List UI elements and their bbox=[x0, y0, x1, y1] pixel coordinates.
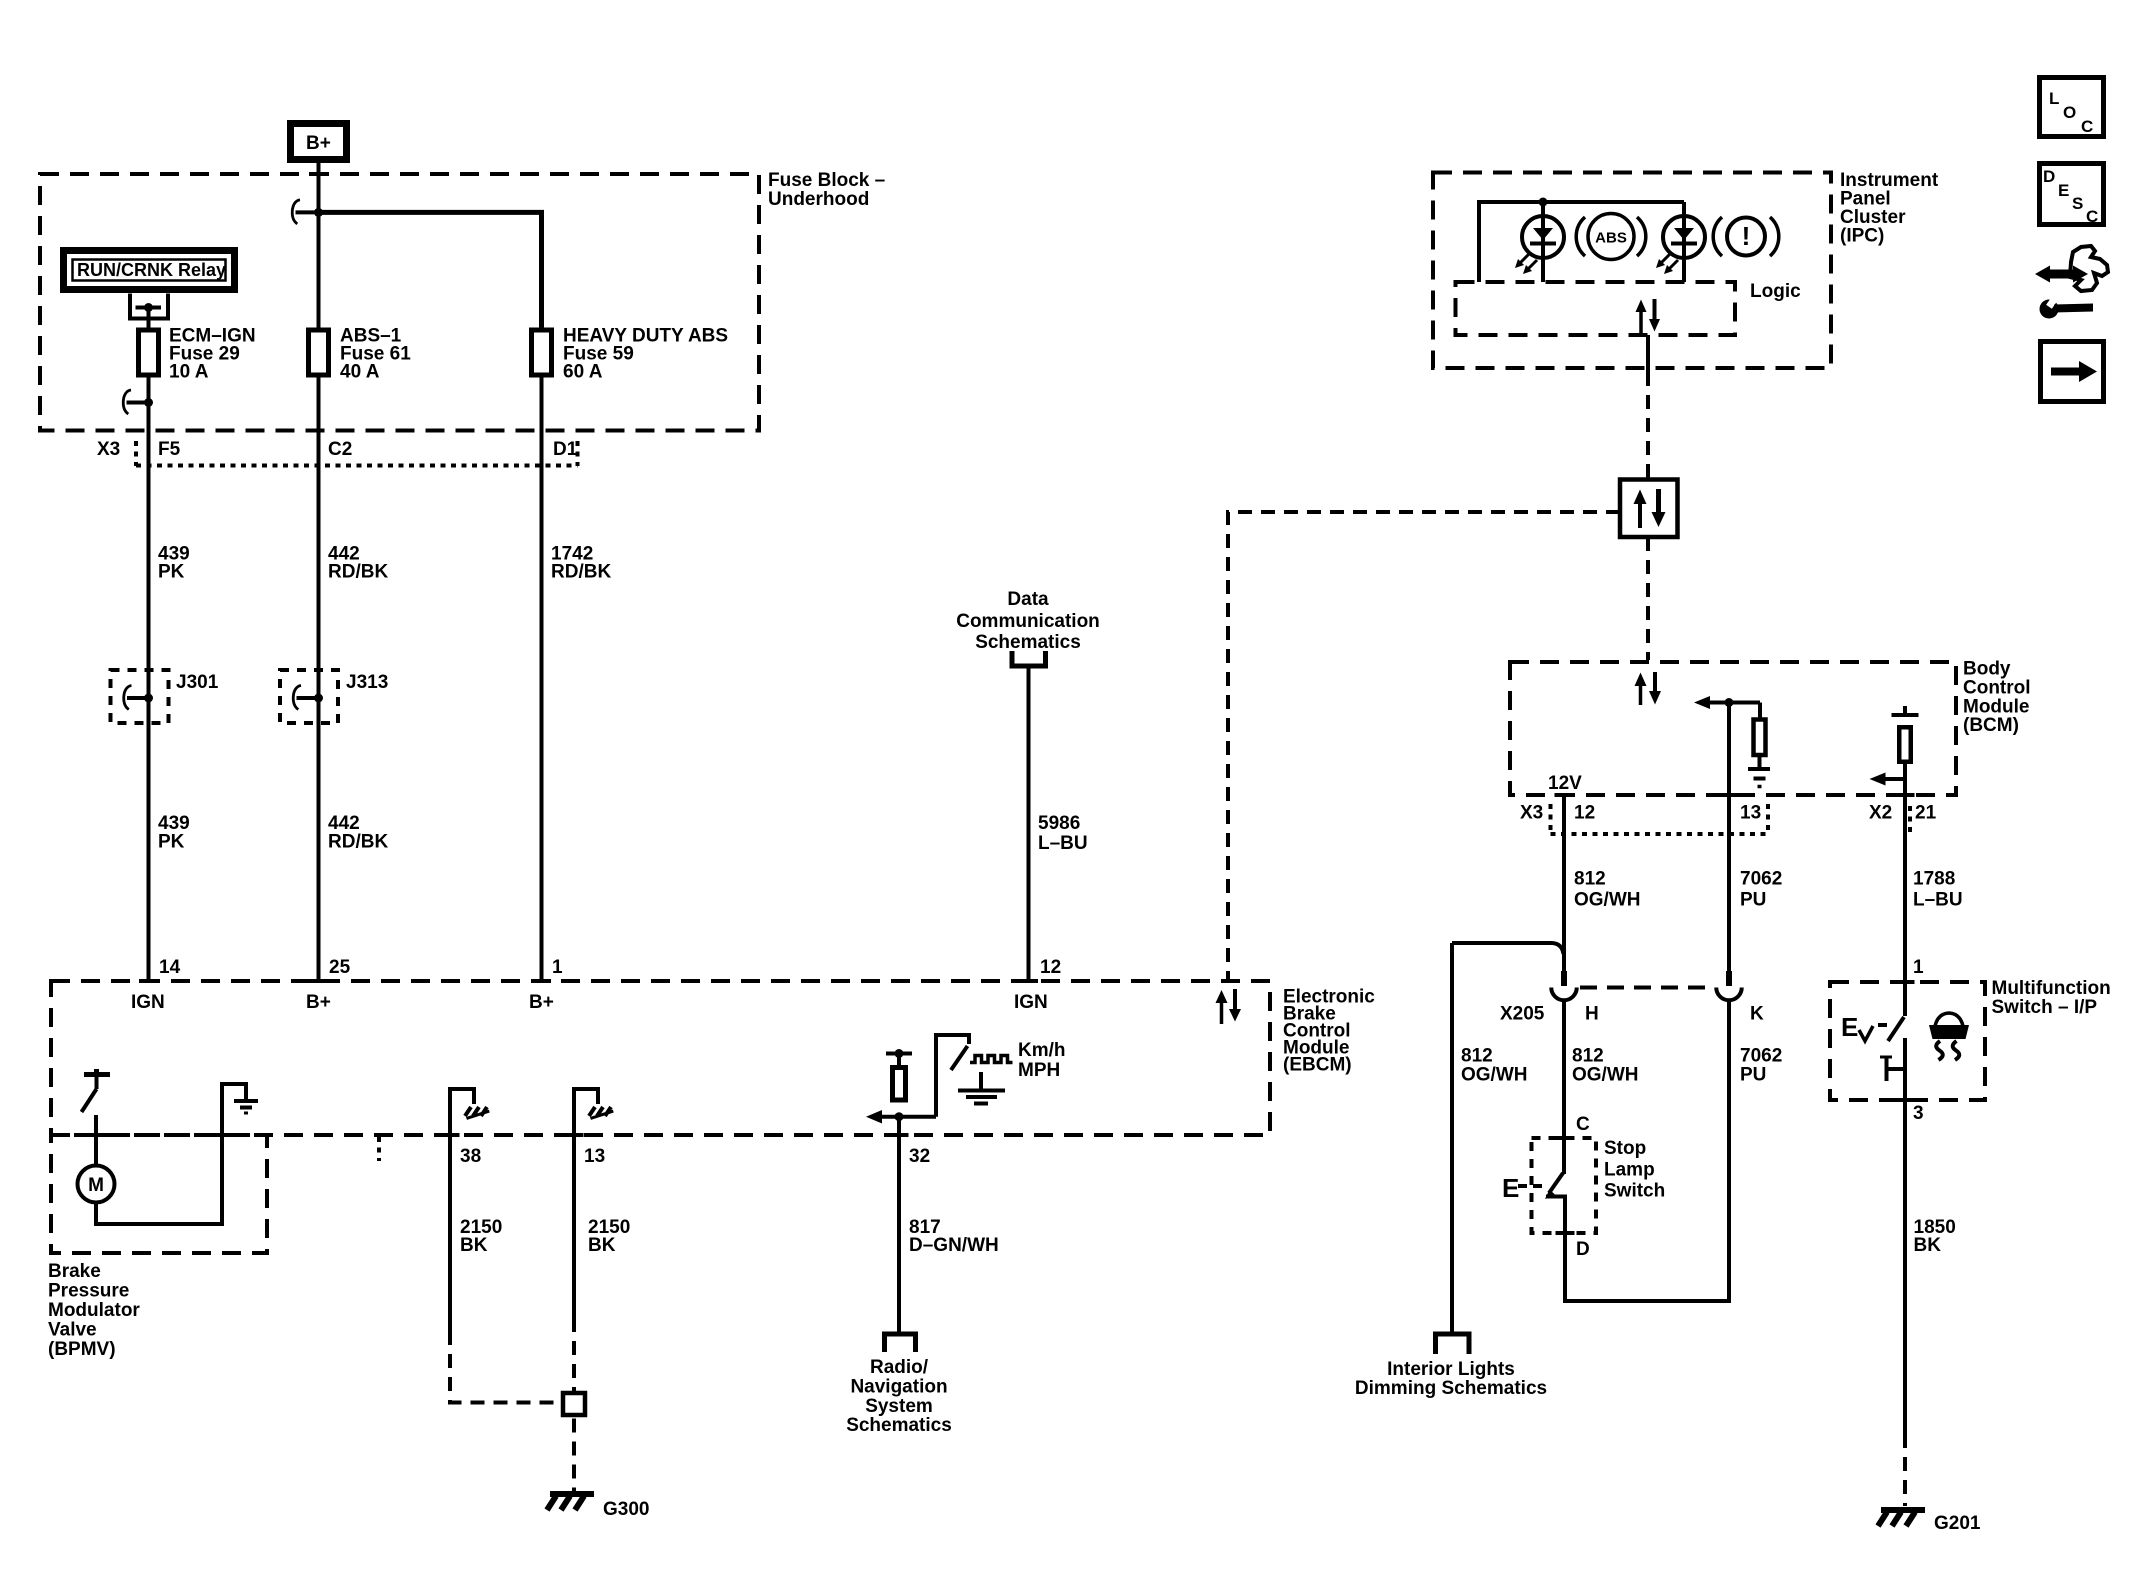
label data communication schematics bbox=[956, 589, 1100, 653]
label radio navigation system schematics bbox=[846, 1357, 952, 1436]
serial data arrows in EBCM bbox=[1216, 989, 1242, 1024]
svg-text:Valve: Valve bbox=[48, 1320, 97, 1341]
pin 25 bbox=[309, 957, 351, 981]
svg-text:L–BU: L–BU bbox=[1913, 890, 1963, 911]
LOC reference box bbox=[2040, 78, 2104, 137]
wire 2150 BK from pin 38 bbox=[448, 1135, 452, 1331]
label stop lamp switch bbox=[1604, 1138, 1665, 1202]
svg-text:C2: C2 bbox=[328, 439, 352, 460]
wire label 442 RD/BK upper bbox=[328, 544, 388, 583]
value label fuse 61 bbox=[340, 326, 411, 383]
svg-text:OG/WH: OG/WH bbox=[1461, 1065, 1528, 1086]
svg-text:O: O bbox=[2063, 103, 2076, 122]
svg-text:BK: BK bbox=[1914, 1235, 1942, 1256]
pin 12 bbox=[1019, 957, 1061, 981]
svg-text:Body: Body bbox=[1963, 659, 2011, 680]
svg-text:J301: J301 bbox=[176, 672, 219, 693]
svg-text:E: E bbox=[1502, 1173, 1519, 1203]
BPMV dashed box bbox=[51, 1135, 267, 1253]
ground G201 bbox=[1878, 1510, 1981, 1534]
svg-text:Pressure: Pressure bbox=[48, 1281, 129, 1302]
wire 7062 PU down and across bbox=[1564, 1001, 1729, 1302]
dashed serial data wire to EBCM bbox=[1228, 512, 1620, 979]
svg-text:Switch – I/P: Switch – I/P bbox=[1992, 997, 2098, 1018]
wire label 7062 PU upper bbox=[1740, 869, 1782, 911]
wire 1788 L-BU from BCM pin 21 bbox=[1903, 795, 1907, 1016]
svg-text:RUN/CRNK Relay: RUN/CRNK Relay bbox=[77, 260, 226, 280]
svg-text:21: 21 bbox=[1915, 803, 1937, 824]
svg-text:M: M bbox=[88, 1175, 104, 1196]
svg-text:Data: Data bbox=[1007, 589, 1049, 610]
svg-text:812: 812 bbox=[1461, 1046, 1493, 1067]
svg-text:X3: X3 bbox=[97, 439, 120, 460]
svg-text:1788: 1788 bbox=[1913, 869, 1955, 890]
svg-text:E: E bbox=[1841, 1012, 1858, 1042]
svg-text:PU: PU bbox=[1740, 890, 1766, 911]
solenoid switch in EBCM bbox=[82, 1069, 111, 1112]
wire 7062 PU from BCM pin 13 bbox=[1727, 703, 1731, 972]
svg-text:E: E bbox=[2058, 181, 2069, 200]
dashed wire to G201 bbox=[1903, 1434, 1907, 1506]
connector labels X3 12 13 X2 21 bbox=[1520, 803, 1937, 835]
svg-text:812: 812 bbox=[1572, 1046, 1604, 1067]
ground under selector switch bbox=[958, 1072, 1005, 1104]
resistor in BCM (multifunction switch sense) bbox=[1899, 727, 1911, 762]
svg-text:BK: BK bbox=[588, 1235, 616, 1256]
relay output pin bracket bbox=[128, 294, 170, 321]
ABS telltale symbol bbox=[1576, 214, 1646, 260]
IPC internal bus bar bbox=[1479, 198, 1684, 283]
svg-text:38: 38 bbox=[460, 1146, 481, 1167]
IPC dashed box bbox=[1433, 173, 1831, 369]
svg-text:K: K bbox=[1750, 1004, 1764, 1025]
fuse block underhood dashed box bbox=[40, 174, 759, 431]
wire motor return loop bbox=[96, 1084, 246, 1224]
RUN/CRNK Relay label box bbox=[64, 251, 235, 290]
svg-text:Fuse Block –: Fuse Block – bbox=[768, 170, 885, 191]
svg-text:L: L bbox=[2049, 89, 2059, 108]
svg-text:G201: G201 bbox=[1934, 1513, 1981, 1534]
svg-text:12V: 12V bbox=[1548, 773, 1582, 794]
resistor in EBCM speed signal bbox=[893, 1068, 906, 1101]
BCM pin 21 tick bbox=[1896, 793, 1915, 797]
svg-text:60 A: 60 A bbox=[563, 362, 603, 383]
wire logic to IPC edge bbox=[1646, 335, 1650, 372]
dashed connector tie X205 bbox=[1580, 986, 1712, 990]
dashed wire to G300 bbox=[572, 1419, 576, 1493]
pin 38 bbox=[441, 1135, 482, 1167]
svg-text:Schematics: Schematics bbox=[846, 1415, 952, 1436]
svg-text:(BCM): (BCM) bbox=[1963, 715, 2019, 736]
fuse F59 HEAVY DUTY ABS 60A bbox=[532, 330, 552, 375]
value label fuse 29 bbox=[169, 326, 256, 383]
svg-text:(IPC): (IPC) bbox=[1840, 226, 1884, 247]
svg-text:10 A: 10 A bbox=[169, 362, 209, 383]
svg-text:12: 12 bbox=[1574, 803, 1595, 824]
wire relay to fuse 29 bbox=[147, 308, 151, 331]
wire fuse29 output bbox=[147, 375, 151, 979]
svg-text:!: ! bbox=[1742, 221, 1751, 251]
svg-text:Navigation: Navigation bbox=[850, 1377, 947, 1398]
svg-text:13: 13 bbox=[1740, 803, 1761, 824]
label Km/h MPH bbox=[1018, 1040, 1066, 1081]
svg-text:Radio/: Radio/ bbox=[870, 1357, 929, 1378]
wire 3 inside BCM bbox=[1903, 761, 1907, 982]
label interior lights dimming schematics bbox=[1355, 1359, 1547, 1399]
svg-text:14: 14 bbox=[159, 957, 181, 978]
off-page connector interior lights bbox=[1436, 1334, 1470, 1354]
ground G300 bbox=[547, 1494, 649, 1520]
pin tick motor return bbox=[213, 1133, 232, 1137]
wire label 2150 BK left bbox=[460, 1217, 502, 1256]
traction control car icon bbox=[1929, 1013, 1969, 1060]
svg-text:12: 12 bbox=[1040, 957, 1061, 978]
wire 2150 BK from pin 13 bbox=[572, 1135, 576, 1318]
wire 5986 L-BU bbox=[1027, 666, 1031, 979]
fuse F61 ABS-1 40A bbox=[309, 330, 329, 375]
junction below resistor bbox=[895, 1112, 904, 1121]
label multifunction switch bbox=[1992, 978, 2111, 1018]
label BCM bbox=[1963, 659, 2031, 737]
curl reference below fuse 29 bbox=[123, 390, 131, 414]
logic dashed box bbox=[1456, 282, 1736, 335]
pin tick motor wire bbox=[87, 1133, 106, 1137]
label BPMV bbox=[48, 1261, 140, 1360]
svg-text:7062: 7062 bbox=[1740, 869, 1782, 890]
serial data arrows in BCM bbox=[1635, 672, 1662, 705]
svg-text:S: S bbox=[2072, 194, 2083, 213]
multifunction switch dashed box bbox=[1830, 982, 1985, 1100]
EBCM dashed box bbox=[51, 981, 1270, 1135]
pin 1 multifunction switch bbox=[1896, 957, 1925, 982]
label IPC bbox=[1840, 170, 1939, 247]
svg-text:(BPMV): (BPMV) bbox=[48, 1339, 116, 1360]
square wave signal glyph bbox=[970, 1056, 1013, 1063]
ground hook pin 38 inside EBCM bbox=[450, 1089, 489, 1135]
svg-text:RD/BK: RD/BK bbox=[328, 832, 388, 853]
wire B+ down from box bbox=[317, 159, 321, 979]
off-page connector symbol data comm bbox=[1012, 651, 1046, 666]
ABS indicator LED bbox=[1515, 202, 1564, 282]
svg-text:Underhood: Underhood bbox=[768, 189, 869, 210]
multifunction switch blade bbox=[1888, 1017, 1904, 1041]
svg-text:32: 32 bbox=[909, 1146, 930, 1167]
serial data transfer box bbox=[1620, 480, 1678, 538]
svg-text:Control: Control bbox=[1963, 678, 2031, 699]
dashed serial data wire transfer box to BCM bbox=[1646, 537, 1650, 660]
wire label 2150 BK right bbox=[588, 1217, 630, 1256]
wire label 439 PK upper bbox=[158, 544, 190, 583]
svg-text:13: 13 bbox=[584, 1146, 605, 1167]
arrow out left (speed signal) bbox=[866, 1110, 882, 1124]
svg-text:Lamp: Lamp bbox=[1604, 1160, 1655, 1181]
svg-text:B+: B+ bbox=[529, 992, 554, 1013]
switch for Km/h MPH select bbox=[936, 1035, 969, 1117]
svg-text:X3: X3 bbox=[1520, 803, 1543, 824]
wire label 5986 L-BU bbox=[1038, 813, 1088, 854]
wire label 1850 BK bbox=[1914, 1217, 1956, 1256]
wire label 1742 RD/BK bbox=[551, 544, 611, 583]
earth ground in BCM bbox=[1748, 769, 1770, 787]
svg-text:System: System bbox=[865, 1396, 933, 1417]
wire label 1788 L-BU bbox=[1913, 869, 1963, 911]
svg-text:5986: 5986 bbox=[1038, 813, 1080, 834]
connector mark below BPMV bbox=[377, 1137, 381, 1161]
off-page connector radio/navigation bbox=[885, 1334, 916, 1352]
wire label 817 D-GN/WH bbox=[909, 1217, 999, 1256]
svg-text:ABS: ABS bbox=[1595, 230, 1627, 247]
junction at relay output bbox=[144, 303, 153, 312]
svg-text:C: C bbox=[2081, 117, 2093, 136]
svg-text:G300: G300 bbox=[603, 1499, 649, 1520]
svg-text:C: C bbox=[2086, 207, 2098, 226]
dashed ground path from pin 38 bbox=[450, 1331, 559, 1403]
BCM dashed box bbox=[1510, 662, 1956, 795]
stop lamp switch contacts bbox=[1545, 1138, 1575, 1233]
next page arrow box bbox=[2041, 342, 2104, 402]
resistor in BCM (stop lamp sense) bbox=[1754, 720, 1766, 756]
svg-text:Logic: Logic bbox=[1750, 281, 1801, 302]
wire 812 OG/WH from BCM pin 12 bbox=[1562, 795, 1566, 971]
wire label 439 PK lower bbox=[158, 813, 190, 853]
svg-text:Multifunction: Multifunction bbox=[1992, 978, 2111, 999]
pin 3 tick bbox=[1896, 1098, 1915, 1102]
svg-text:BK: BK bbox=[460, 1235, 488, 1256]
wire branch horizontal to heavy duty abs fuse bbox=[319, 212, 542, 330]
brake warning LED bbox=[1656, 202, 1705, 282]
wire 812 OG/WH to stop lamp switch bbox=[1562, 1001, 1566, 1175]
label E actuator stop lamp bbox=[1502, 1173, 1542, 1203]
svg-text:812: 812 bbox=[1574, 869, 1606, 890]
pin 32 bbox=[890, 1135, 931, 1167]
svg-text:7062: 7062 bbox=[1740, 1046, 1782, 1067]
wire 3 lower half bbox=[1903, 1038, 1907, 1434]
svg-text:OG/WH: OG/WH bbox=[1574, 890, 1641, 911]
svg-text:Brake: Brake bbox=[48, 1261, 101, 1282]
stop lamp switch dashed box bbox=[1532, 1138, 1597, 1233]
svg-text:IGN: IGN bbox=[1014, 992, 1048, 1013]
pin 14 bbox=[139, 957, 181, 981]
wire D down to 7062 PU bbox=[1563, 1233, 1567, 1303]
wire 1742 to EBCM pin 1 bbox=[540, 375, 544, 979]
wire resistor to ground bbox=[1758, 757, 1762, 767]
ground hook pin 13 inside EBCM bbox=[574, 1089, 613, 1135]
wire label 7062 PU lower bbox=[1740, 1046, 1782, 1086]
svg-text:PK: PK bbox=[158, 562, 185, 583]
wire label 812 OG/WH branch bbox=[1461, 1046, 1528, 1086]
svg-text:1: 1 bbox=[552, 957, 563, 978]
svg-text:X2: X2 bbox=[1869, 803, 1892, 824]
splice J313 bbox=[280, 670, 388, 723]
label EBCM bbox=[1283, 987, 1375, 1076]
svg-text:F5: F5 bbox=[158, 439, 181, 460]
label E actuator multifunction bbox=[1841, 1012, 1887, 1042]
svg-text:D: D bbox=[1576, 1239, 1590, 1260]
value label fuse 59 bbox=[563, 326, 728, 383]
svg-text:Modulator: Modulator bbox=[48, 1300, 140, 1321]
connector X205 pin K bbox=[1716, 971, 1764, 1025]
multifunction fixed contact bbox=[1880, 1057, 1906, 1081]
svg-text:Dimming Schematics: Dimming Schematics bbox=[1355, 1378, 1547, 1399]
svg-text:B+: B+ bbox=[306, 133, 331, 154]
svg-text:MPH: MPH bbox=[1018, 1060, 1060, 1081]
pin 1 bbox=[532, 957, 563, 981]
svg-text:Interior Lights: Interior Lights bbox=[1387, 1359, 1515, 1380]
svg-text:IGN: IGN bbox=[131, 992, 165, 1013]
earth ground in EBCM (motor return) bbox=[234, 1101, 258, 1113]
svg-text:(EBCM): (EBCM) bbox=[1283, 1055, 1352, 1076]
svg-text:J313: J313 bbox=[346, 672, 388, 693]
svg-text:B+: B+ bbox=[306, 992, 331, 1013]
branch to interior lights dimming bbox=[1452, 943, 1564, 954]
dashed ground path from pin 13 bbox=[572, 1318, 576, 1391]
svg-text:X205: X205 bbox=[1500, 1004, 1545, 1025]
svg-text:L–BU: L–BU bbox=[1038, 833, 1088, 854]
BCM pin 12 tick bbox=[1555, 793, 1574, 797]
wire label 812 OG/WH upper bbox=[1574, 869, 1641, 911]
svg-text:C: C bbox=[1576, 1114, 1590, 1135]
wire label 812 OG/WH lower bbox=[1572, 1046, 1639, 1086]
svg-text:Schematics: Schematics bbox=[975, 632, 1081, 653]
wire to BPMV motor bbox=[94, 1115, 98, 1167]
dashed serial data wire IPC to transfer box bbox=[1646, 372, 1650, 479]
wire 817 down from pin 32 bbox=[897, 1117, 901, 1334]
repair icon (arrow + wrench) bbox=[2035, 246, 2108, 319]
svg-text:RD/BK: RD/BK bbox=[551, 562, 611, 583]
connector row X3 below fuse block bbox=[97, 439, 578, 466]
speed signal resistor network in EBCM bbox=[886, 1049, 912, 1067]
DESC reference box bbox=[2040, 164, 2104, 227]
svg-text:PK: PK bbox=[158, 832, 185, 853]
brake telltale symbol bbox=[1713, 217, 1779, 256]
svg-text:Stop: Stop bbox=[1604, 1138, 1646, 1159]
svg-text:D–GN/WH: D–GN/WH bbox=[909, 1235, 999, 1256]
wire to interior lights bbox=[1450, 943, 1454, 1334]
svg-text:D: D bbox=[2043, 167, 2055, 186]
serial data arrows in logic bbox=[1636, 299, 1661, 333]
splice J301 bbox=[111, 670, 219, 723]
fuse F29 ECM-IGN 10A bbox=[139, 330, 159, 375]
motor M in BPMV bbox=[78, 1166, 115, 1203]
branch node to fuse 59 bbox=[314, 208, 323, 217]
svg-text:3: 3 bbox=[1913, 1103, 1924, 1124]
BCM switch input arrow bbox=[1870, 773, 1906, 786]
svg-text:RD/BK: RD/BK bbox=[328, 562, 388, 583]
pin tick fuse block top at B+ bbox=[309, 172, 328, 176]
curl reference at branch bbox=[292, 200, 300, 224]
wire label 442 RD/BK lower bbox=[328, 813, 388, 853]
svg-text:H: H bbox=[1585, 1004, 1599, 1025]
svg-text:D1: D1 bbox=[553, 439, 578, 460]
svg-text:1: 1 bbox=[1913, 957, 1924, 978]
pin 13 bbox=[565, 1135, 606, 1167]
svg-text:OG/WH: OG/WH bbox=[1572, 1065, 1639, 1086]
svg-text:Switch: Switch bbox=[1604, 1181, 1665, 1202]
ground splice box G300 bbox=[563, 1393, 585, 1415]
svg-text:40 A: 40 A bbox=[340, 362, 380, 383]
BCM pin 13 tick bbox=[1720, 793, 1739, 797]
BCM 12V supply and resistor for switch sense bbox=[1892, 706, 1919, 717]
svg-text:Communication: Communication bbox=[956, 611, 1100, 632]
svg-text:Km/h: Km/h bbox=[1018, 1040, 1066, 1061]
connector X205 pin H bbox=[1551, 971, 1598, 1025]
svg-text:25: 25 bbox=[329, 957, 351, 978]
svg-text:PU: PU bbox=[1740, 1065, 1766, 1086]
B+ power symbol bbox=[291, 124, 347, 160]
BCM brake input arrow and pull-up bbox=[1694, 696, 1760, 718]
